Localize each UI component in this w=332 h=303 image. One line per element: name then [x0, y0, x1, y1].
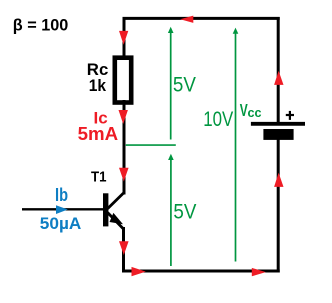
wire right upper — [277, 17, 280, 123]
svg-text:5mA: 5mA — [78, 123, 119, 144]
wire top — [123, 17, 280, 20]
wire emitter — [122, 227, 125, 273]
svg-text:5V: 5V — [173, 200, 196, 223]
arrow red bottom wire left right-pointing — [132, 267, 146, 276]
wire bottom — [122, 270, 280, 273]
battery Vcc positive plate — [251, 122, 305, 126]
arrow red top wire left — [180, 16, 193, 23]
arrow red emitter down — [119, 241, 129, 255]
svg-text:cc: cc — [248, 105, 262, 120]
arrow red left wire down — [119, 31, 128, 45]
green arrow 5V bottom — [168, 154, 174, 266]
arrow red bottom wire right right-pointing — [252, 268, 266, 276]
label plus — [286, 111, 294, 120]
svg-text:β = 100: β = 100 — [13, 16, 69, 35]
svg-text:5V: 5V — [173, 73, 196, 96]
resistor Rc — [115, 58, 131, 103]
svg-text:10V: 10V — [203, 108, 233, 131]
wire right lower — [277, 140, 280, 273]
arrow red below resistor down — [119, 110, 128, 124]
green arrow 10V — [233, 28, 239, 262]
svg-text:Ib: Ib — [55, 185, 68, 205]
arrow red above transistor down — [119, 168, 129, 182]
battery Vcc negative plate — [263, 129, 293, 140]
transistor T1 — [103, 193, 124, 229]
svg-text:50µA: 50µA — [40, 215, 82, 233]
arrow red below battery up — [274, 173, 283, 187]
label Vcc — [240, 100, 262, 120]
green arrow 5V top — [168, 27, 174, 140]
green node tick line — [126, 144, 176, 146]
wire collector lower — [123, 100, 126, 195]
wire base — [22, 208, 103, 210]
arrow Ib blue — [56, 205, 68, 214]
svg-text:1k: 1k — [89, 76, 107, 95]
svg-text:T1: T1 — [91, 169, 107, 186]
arrow red above battery up — [274, 71, 283, 85]
wire collector upper — [123, 17, 126, 61]
